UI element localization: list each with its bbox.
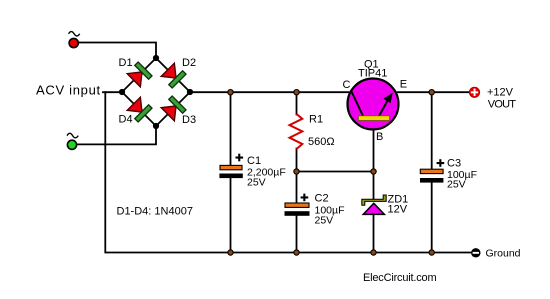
- svg-text:C1: C1: [247, 155, 261, 167]
- svg-text:+12V: +12V: [487, 87, 514, 99]
- svg-text:TIP41: TIP41: [358, 68, 387, 80]
- svg-text:VOUT: VOUT: [488, 99, 516, 111]
- svg-text:D1-D4: 1N4007: D1-D4: 1N4007: [117, 206, 193, 218]
- svg-text:D3: D3: [182, 114, 196, 126]
- svg-text:560Ω: 560Ω: [308, 136, 335, 148]
- svg-text:C: C: [343, 79, 351, 91]
- svg-text:25V: 25V: [447, 179, 466, 191]
- svg-text:12V: 12V: [388, 204, 408, 216]
- svg-text:ACV input: ACV input: [36, 83, 101, 98]
- svg-text:B: B: [376, 131, 383, 143]
- svg-text:Ground: Ground: [486, 248, 521, 260]
- svg-text:C3: C3: [447, 158, 461, 170]
- svg-text:D2: D2: [182, 57, 196, 69]
- svg-text:R1: R1: [309, 114, 323, 126]
- svg-text:C2: C2: [315, 193, 329, 205]
- svg-text:25V: 25V: [315, 215, 334, 227]
- svg-text:D4: D4: [119, 114, 133, 126]
- svg-text:ElecCircuit.com: ElecCircuit.com: [363, 272, 436, 284]
- svg-text:E: E: [400, 79, 407, 91]
- svg-text:25V: 25V: [247, 177, 266, 189]
- svg-text:D1: D1: [119, 57, 133, 69]
